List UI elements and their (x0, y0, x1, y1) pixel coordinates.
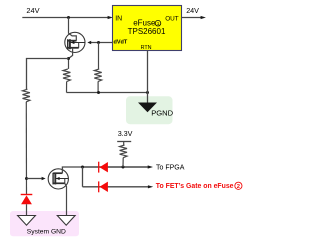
svg-text:PGND: PGND (151, 109, 173, 118)
junction 24V rail / Q1 drain (67, 16, 70, 19)
junction R2 / rail (97, 91, 100, 94)
eFuse U1 (TPS26601) body (113, 6, 182, 51)
svg-text:2: 2 (237, 184, 240, 190)
svg-text:dVdT: dVdT (114, 39, 128, 45)
ground System GND (left) (18, 216, 36, 226)
power rail tick 3.3V (117, 141, 131, 143)
wire left branch from Q1 source node (27, 59, 69, 90)
ground PGND symbol (138, 103, 157, 113)
wire Q2 drain up to diode row (62, 167, 82, 173)
junction diode branch split (81, 166, 84, 169)
transistor Q1 (external blocking FET, top) (65, 32, 85, 52)
wire Q2 gate drive (27, 178, 42, 180)
arrow To FPGA (148, 165, 153, 168)
System GND net region (pink) (10, 211, 79, 236)
circled digit 1 (155, 20, 161, 26)
diode D1 (red, row 1) (99, 162, 108, 173)
wire diode row 1 (83, 166, 149, 168)
resistor R4 (3.3V pull-up) (120, 142, 127, 168)
junction 3.3V pull-up / row 1 (122, 166, 125, 169)
arrow 24V output (201, 16, 206, 19)
wire diode row 2 (83, 186, 150, 188)
wire branch down to row 2 (82, 167, 84, 187)
ground System GND (right) (57, 216, 75, 226)
resistor R3 (left rail) (23, 89, 30, 194)
svg-text:24V: 24V (26, 6, 39, 15)
svg-text:IN: IN (115, 15, 122, 22)
svg-text:To FPGA: To FPGA (156, 164, 185, 171)
PGND net region (green) (126, 96, 173, 124)
wire dVdT pin to Q1 gate (91, 42, 113, 44)
svg-text:System GND: System GND (27, 229, 66, 236)
wire OUT to 24V load (182, 17, 202, 19)
junction RTN / rail (146, 91, 149, 94)
svg-text:To FET’s Gate on eFuse: To FET’s Gate on eFuse (156, 183, 234, 190)
arrow to Q1 gate (points left) (87, 41, 91, 44)
svg-text:3.3V: 3.3V (118, 129, 133, 138)
junction Q1 source node (67, 57, 70, 60)
arrow to FET gate on eFuse 2 (148, 185, 153, 188)
svg-text:OUT: OUT (165, 16, 179, 23)
transistor Q2 (FET driven via gate, bottom) (48, 169, 68, 189)
wire Q2 source to ground (65, 183, 67, 215)
wire Q1 source down to node (69, 48, 73, 59)
wire bottom rail to RTN (67, 92, 148, 94)
svg-text:TPS26601: TPS26601 (128, 27, 166, 36)
arrow to Q2 gate (points right) (42, 177, 46, 180)
resistor R1 (Q1 source to RTN rail) (63, 59, 70, 93)
arrow into IN pin (108, 16, 113, 19)
svg-text:RTN: RTN (141, 45, 152, 51)
wire RTN down to PGND (147, 51, 149, 104)
wire D3 to ground (26, 204, 28, 215)
junction dVdT / R2 (97, 41, 100, 44)
wire 24V input rail (22, 17, 108, 19)
svg-text:24V: 24V (186, 6, 199, 15)
junction Q2 gate node (25, 177, 28, 180)
diode D2 (red, row 2) (99, 181, 108, 192)
circled digit 2 (red) (235, 182, 242, 189)
resistor R2 (dVdT node pulldown) (94, 43, 101, 93)
diode D3 (red, clamp to System GND) (21, 195, 33, 205)
wire Q1 drain from 24V rail (69, 18, 77, 41)
